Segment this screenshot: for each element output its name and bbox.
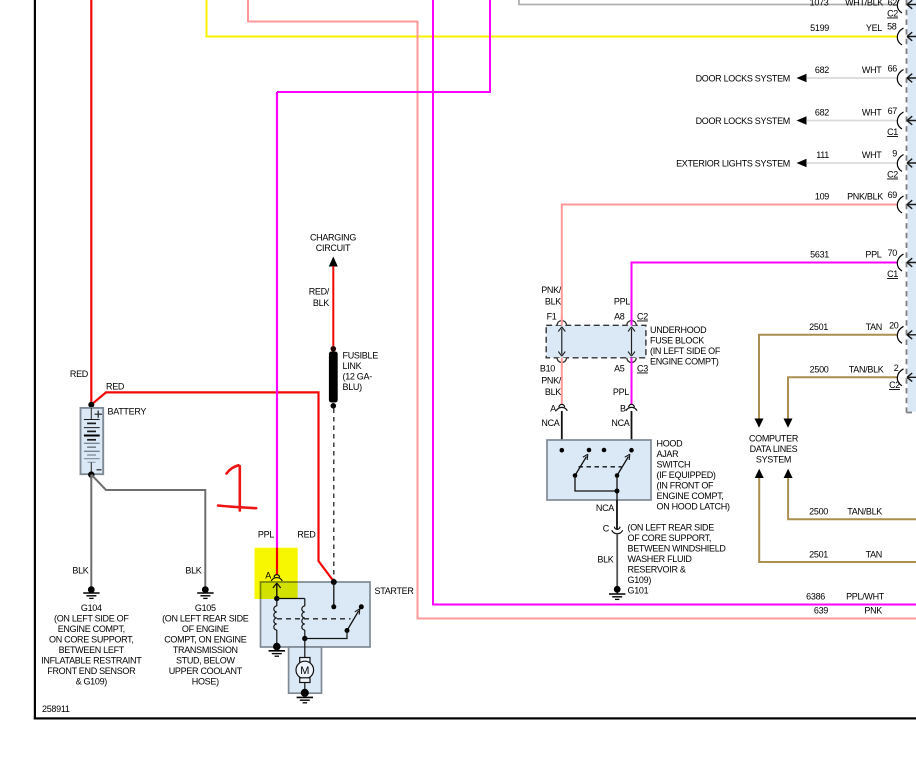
svg-text:TAN/BLK: TAN/BLK — [847, 507, 882, 517]
wire NCA from connector A to hood ajar switch — [541, 411, 561, 450]
svg-text:2: 2 — [894, 363, 899, 373]
right component (dashed connector boundary with blue fill) — [907, 0, 916, 413]
underhood fuse block — [546, 325, 646, 358]
svg-text:& G109): & G109) — [76, 677, 108, 687]
svg-text:PPL: PPL — [614, 297, 630, 307]
svg-text:FRONT END SENSOR: FRONT END SENSOR — [47, 666, 136, 676]
svg-text:111: 111 — [816, 150, 829, 160]
svg-text:SYSTEM: SYSTEM — [756, 455, 791, 465]
fuse block pass-through bump B10 bottom — [557, 358, 566, 363]
node battery negative junction — [88, 471, 94, 477]
fuse block name label — [650, 325, 721, 367]
wire 109 PNK/BLK row 69 to underhood fuse block F1 — [562, 190, 898, 321]
svg-text:ENGINE COMPT): ENGINE COMPT) — [650, 357, 719, 367]
connector pin 70 bracket and arrow — [897, 254, 916, 271]
ground G104 — [83, 586, 99, 598]
svg-text:C1: C1 — [887, 269, 898, 279]
svg-text:F1: F1 — [547, 312, 557, 322]
svg-text:CIRCUIT: CIRCUIT — [316, 243, 351, 253]
svg-text:C3: C3 — [637, 364, 648, 374]
svg-text:2501: 2501 — [809, 550, 828, 560]
svg-text:6386: 6386 — [806, 592, 825, 602]
starter solenoid linkage dashed — [277, 618, 351, 620]
svg-text:(IN LEFT SIDE OF: (IN LEFT SIDE OF — [650, 346, 721, 356]
starter switch arm — [345, 609, 360, 633]
wire RED/BLK to charging circuit with up arrow — [309, 257, 338, 349]
svg-text:FUSIBLE: FUSIBLE — [343, 351, 379, 361]
svg-text:DOOR LOCKS SYSTEM: DOOR LOCKS SYSTEM — [696, 116, 790, 126]
connector pin 66 bracket and arrow — [897, 70, 916, 87]
svg-text:INFLATABLE RESTRAINT: INFLATABLE RESTRAINT — [41, 656, 142, 666]
svg-text:G105: G105 — [195, 603, 216, 613]
svg-text:109: 109 — [815, 192, 829, 202]
svg-text:69: 69 — [888, 190, 898, 200]
svg-text:C2: C2 — [889, 380, 900, 390]
svg-text:WHT: WHT — [862, 150, 882, 160]
svg-text:SWITCH: SWITCH — [657, 460, 691, 470]
hood ajar switch contact node B side — [629, 448, 634, 453]
ground G105 location label — [162, 603, 249, 687]
svg-text:BLK: BLK — [545, 297, 561, 307]
svg-text:STARTER: STARTER — [375, 586, 415, 596]
svg-text:NCA: NCA — [541, 418, 559, 428]
svg-text:B10: B10 — [540, 364, 555, 374]
fuse block internal double arrow right — [628, 327, 635, 356]
svg-text:WHT: WHT — [862, 108, 882, 118]
svg-text:5199: 5199 — [810, 23, 829, 33]
svg-text:(IN FRONT OF: (IN FRONT OF — [657, 481, 715, 491]
starter motor M — [296, 658, 314, 692]
svg-text:67: 67 — [888, 106, 898, 116]
wire 639 PNK — [248, 0, 916, 619]
svg-text:2500: 2500 — [810, 365, 829, 375]
svg-text:BLK: BLK — [597, 555, 613, 565]
svg-text:PNK/: PNK/ — [541, 376, 562, 386]
svg-text:70: 70 — [888, 248, 898, 258]
svg-text:CHARGING: CHARGING — [310, 233, 356, 243]
svg-text:20: 20 — [889, 321, 899, 331]
svg-text:2500: 2500 — [809, 507, 828, 517]
svg-text:RESERVOIR &: RESERVOIR & — [628, 565, 686, 575]
svg-text:A8: A8 — [614, 312, 625, 322]
svg-text:PPL: PPL — [258, 530, 274, 540]
wire RED battery feed from top — [70, 0, 91, 406]
svg-text:COMPUTER: COMPUTER — [749, 434, 799, 444]
svg-text:AJAR: AJAR — [657, 449, 680, 459]
frame bottom border — [34, 717, 916, 719]
svg-text:C1: C1 — [887, 127, 898, 137]
battery — [81, 407, 147, 475]
svg-text:682: 682 — [815, 108, 829, 118]
wire PNK/BLK through bump F1 — [561, 316, 563, 325]
wire 111 WHT row 9 to exterior lights system — [676, 149, 897, 169]
fuse block internal double arrow left — [558, 327, 565, 356]
svg-text:RED/: RED/ — [309, 287, 330, 297]
svg-text:FUSE BLOCK: FUSE BLOCK — [650, 336, 704, 346]
svg-text:BLK: BLK — [72, 566, 88, 576]
wire PPL from fuse block A5 to connector B — [613, 358, 632, 405]
svg-text:G109): G109) — [628, 575, 652, 585]
connector pin 62 bracket and arrow — [897, 0, 916, 13]
charging circuit label — [310, 233, 356, 254]
svg-text:BATTERY: BATTERY — [108, 407, 147, 417]
connector pin 2 bracket and arrow — [897, 369, 916, 386]
connector C location label — [628, 523, 727, 586]
svg-text:YEL: YEL — [866, 23, 882, 33]
svg-text:PPL: PPL — [865, 250, 881, 260]
svg-text:A5: A5 — [614, 364, 625, 374]
wire 6386 PPL/WHT — [433, 0, 916, 605]
svg-text:ON HOOD LATCH): ON HOOD LATCH) — [657, 502, 730, 512]
svg-text:C2: C2 — [637, 312, 648, 322]
svg-text:RED: RED — [70, 369, 89, 379]
inline connector C — [603, 524, 623, 534]
handwritten red mark 1 — [218, 465, 256, 510]
svg-text:HOOD: HOOD — [657, 439, 684, 449]
svg-text:BLK: BLK — [313, 298, 329, 308]
svg-text:(ON LEFT REAR SIDE: (ON LEFT REAR SIDE — [628, 523, 715, 533]
hood ajar switch contact node A side — [560, 448, 565, 453]
svg-text:(IF EQUIPPED): (IF EQUIPPED) — [657, 470, 716, 480]
svg-text:OF ENGINE: OF ENGINE — [182, 624, 229, 634]
fusible link FL (12 GA BLU) — [329, 346, 378, 409]
wire BLK battery to G104 — [72, 475, 91, 587]
svg-text:STUD, BELOW: STUD, BELOW — [176, 656, 236, 666]
svg-text:639: 639 — [814, 606, 828, 616]
svg-text:PPL/WHT: PPL/WHT — [846, 592, 885, 602]
hood ajar switch name label — [657, 439, 730, 512]
svg-text:(12 GA-: (12 GA- — [343, 372, 373, 382]
wire PNK/BLK from fuse block B10 to connector A — [541, 358, 562, 405]
svg-text:ENGINE COMPT,: ENGINE COMPT, — [657, 491, 724, 501]
ground G104 location label — [41, 603, 142, 687]
svg-text:ENGINE COMPT,: ENGINE COMPT, — [58, 624, 125, 634]
svg-text:C: C — [603, 524, 610, 534]
inline connector A — [550, 404, 567, 414]
svg-text:NCA: NCA — [611, 418, 629, 428]
starter switch contact — [359, 604, 364, 609]
wire RED battery to starter — [91, 382, 333, 582]
starter solenoid hold-in coil — [277, 599, 308, 642]
hood ajar switch bottom wiring — [575, 476, 620, 501]
svg-text:(ON LEFT SIDE OF: (ON LEFT SIDE OF — [54, 614, 129, 624]
svg-text:682: 682 — [815, 65, 829, 75]
svg-text:66: 66 — [888, 64, 898, 74]
svg-text:BETWEEN WINDSHIELD: BETWEEN WINDSHIELD — [628, 544, 727, 554]
wire 682 WHT row 66 to door locks system — [696, 64, 898, 84]
svg-text:5631: 5631 — [810, 250, 829, 260]
svg-text:TAN: TAN — [866, 550, 882, 560]
wire 682 WHT row 67 to door locks system — [696, 106, 898, 126]
starter switch feed from B junction — [331, 579, 337, 609]
starter solenoid box — [261, 582, 371, 647]
svg-text:BLK: BLK — [185, 566, 201, 576]
svg-text:M: M — [300, 665, 309, 677]
svg-text:PNK/BLK: PNK/BLK — [847, 192, 883, 202]
ground G101 — [609, 586, 649, 600]
svg-text:TRANSMISSION: TRANSMISSION — [173, 645, 238, 655]
wire 2501 TAN row 20 down-arrow to computer data lines system — [755, 321, 899, 428]
svg-text:LINK: LINK — [343, 361, 362, 371]
wire 5631 PPL row 70 to underhood fuse block A8 — [632, 248, 898, 321]
svg-text:WHT: WHT — [862, 65, 882, 75]
highlighter mark over starter pin A — [255, 548, 298, 599]
wire 2500 TAN/BLK from computer data lines system up-arrow — [784, 469, 916, 519]
connector pin 58 bracket and arrow — [897, 28, 916, 45]
svg-text:BETWEEN LEFT: BETWEEN LEFT — [59, 645, 125, 655]
wire 2501 TAN from computer data lines system up-arrow — [755, 469, 916, 562]
inline connector A at starter — [265, 571, 282, 582]
svg-text:62: 62 — [888, 0, 898, 8]
connector pin 67 bracket and arrow — [897, 112, 916, 129]
svg-text:(ON LEFT REAR SIDE: (ON LEFT REAR SIDE — [162, 614, 249, 624]
svg-text:PPL: PPL — [613, 387, 629, 397]
wire PNK/BLK label above F1 — [541, 285, 562, 307]
svg-text:UNDERHOOD: UNDERHOOD — [650, 325, 707, 335]
wire PPL to starter solenoid A — [258, 0, 490, 574]
starter solenoid pull-in coil — [274, 599, 277, 646]
starter motor wire — [304, 639, 306, 659]
svg-text:BLK: BLK — [545, 387, 561, 397]
svg-text:OF CORE SUPPORT,: OF CORE SUPPORT, — [628, 533, 712, 543]
svg-text:DOOR LOCKS SYSTEM: DOOR LOCKS SYSTEM — [696, 74, 790, 84]
svg-text:PNK: PNK — [864, 606, 882, 616]
wire BLK battery to G105 — [91, 475, 205, 587]
svg-text:A: A — [550, 404, 556, 414]
svg-text:HOSE): HOSE) — [192, 677, 219, 687]
starter switch arm to coil wire — [305, 631, 347, 639]
fuse block pass-through bump A5 bottom — [627, 358, 636, 363]
svg-text:1073: 1073 — [810, 0, 829, 8]
wire PPL through bump A8 — [631, 316, 633, 325]
wire dashed from fusible link to starter B junction — [333, 409, 335, 582]
wire NCA from connector B to hood ajar switch — [611, 411, 631, 450]
hood ajar switch — [547, 440, 651, 500]
wire BLK from connector C to G101 — [597, 534, 617, 587]
wire 2500 TAN/BLK row 2 down-arrow to computer data lines system — [784, 363, 899, 428]
node battery positive junction — [88, 402, 94, 408]
svg-text:RED: RED — [297, 530, 316, 540]
hood ajar switch linkage dashed — [579, 466, 622, 468]
svg-text:EXTERIOR LIGHTS SYSTEM: EXTERIOR LIGHTS SYSTEM — [676, 159, 790, 169]
fuse block pass-through bump F1 top — [557, 321, 566, 326]
svg-text:2501: 2501 — [809, 322, 828, 332]
frame left border — [34, 0, 36, 720]
connector pin 9 bracket and arrow — [897, 155, 916, 172]
starter pin A wire with up arrow — [273, 583, 281, 601]
svg-text:9: 9 — [892, 149, 897, 159]
svg-text:WHT/BLK: WHT/BLK — [845, 0, 883, 8]
hood ajar switch contact node mid-right — [602, 448, 607, 453]
svg-text:TAN/BLK: TAN/BLK — [849, 365, 884, 375]
svg-text:WASHER FLUID: WASHER FLUID — [628, 554, 693, 564]
svg-text:BLU): BLU) — [343, 382, 363, 392]
wire 5199 YEL row 58 — [207, 0, 898, 37]
ground G105 — [197, 586, 213, 598]
svg-text:C2: C2 — [887, 9, 898, 19]
hood ajar switch arm left — [573, 454, 588, 478]
connector pin 69 bracket and arrow — [897, 196, 916, 213]
starter motor housing box — [289, 647, 322, 693]
svg-text:G101: G101 — [628, 586, 649, 596]
svg-text:C2: C2 — [887, 170, 898, 180]
svg-text:B: B — [620, 404, 626, 414]
svg-text:PNK/: PNK/ — [541, 285, 562, 295]
fuse block pin labels — [540, 312, 648, 374]
svg-text:DATA LINES: DATA LINES — [750, 444, 798, 454]
svg-text:COMPT, ON ENGINE: COMPT, ON ENGINE — [164, 635, 247, 645]
fuse block pass-through bump A8 top — [627, 321, 636, 326]
svg-text:RED: RED — [106, 382, 125, 392]
svg-text:58: 58 — [887, 22, 897, 32]
inline connector B — [620, 404, 637, 414]
svg-text:G104: G104 — [81, 603, 102, 613]
wire NCA from hood ajar switch to connector C — [596, 500, 617, 529]
hood ajar switch contact node mid-left — [587, 448, 592, 453]
hood ajar switch arm right — [615, 454, 630, 478]
svg-text:ON CORE SUPPORT,: ON CORE SUPPORT, — [49, 635, 134, 645]
computer data lines system label — [749, 434, 799, 465]
wire 1073 WHT/BLK row 62 — [519, 0, 898, 8]
starter ground (solenoid) — [269, 643, 285, 656]
svg-text:NCA: NCA — [596, 503, 614, 513]
svg-text:258911: 258911 — [42, 704, 70, 714]
svg-text:TAN: TAN — [866, 322, 882, 332]
starter motor ground — [297, 689, 313, 703]
connector pin 20 bracket and arrow — [897, 326, 916, 343]
svg-text:UPPER COOLANT: UPPER COOLANT — [169, 666, 243, 676]
